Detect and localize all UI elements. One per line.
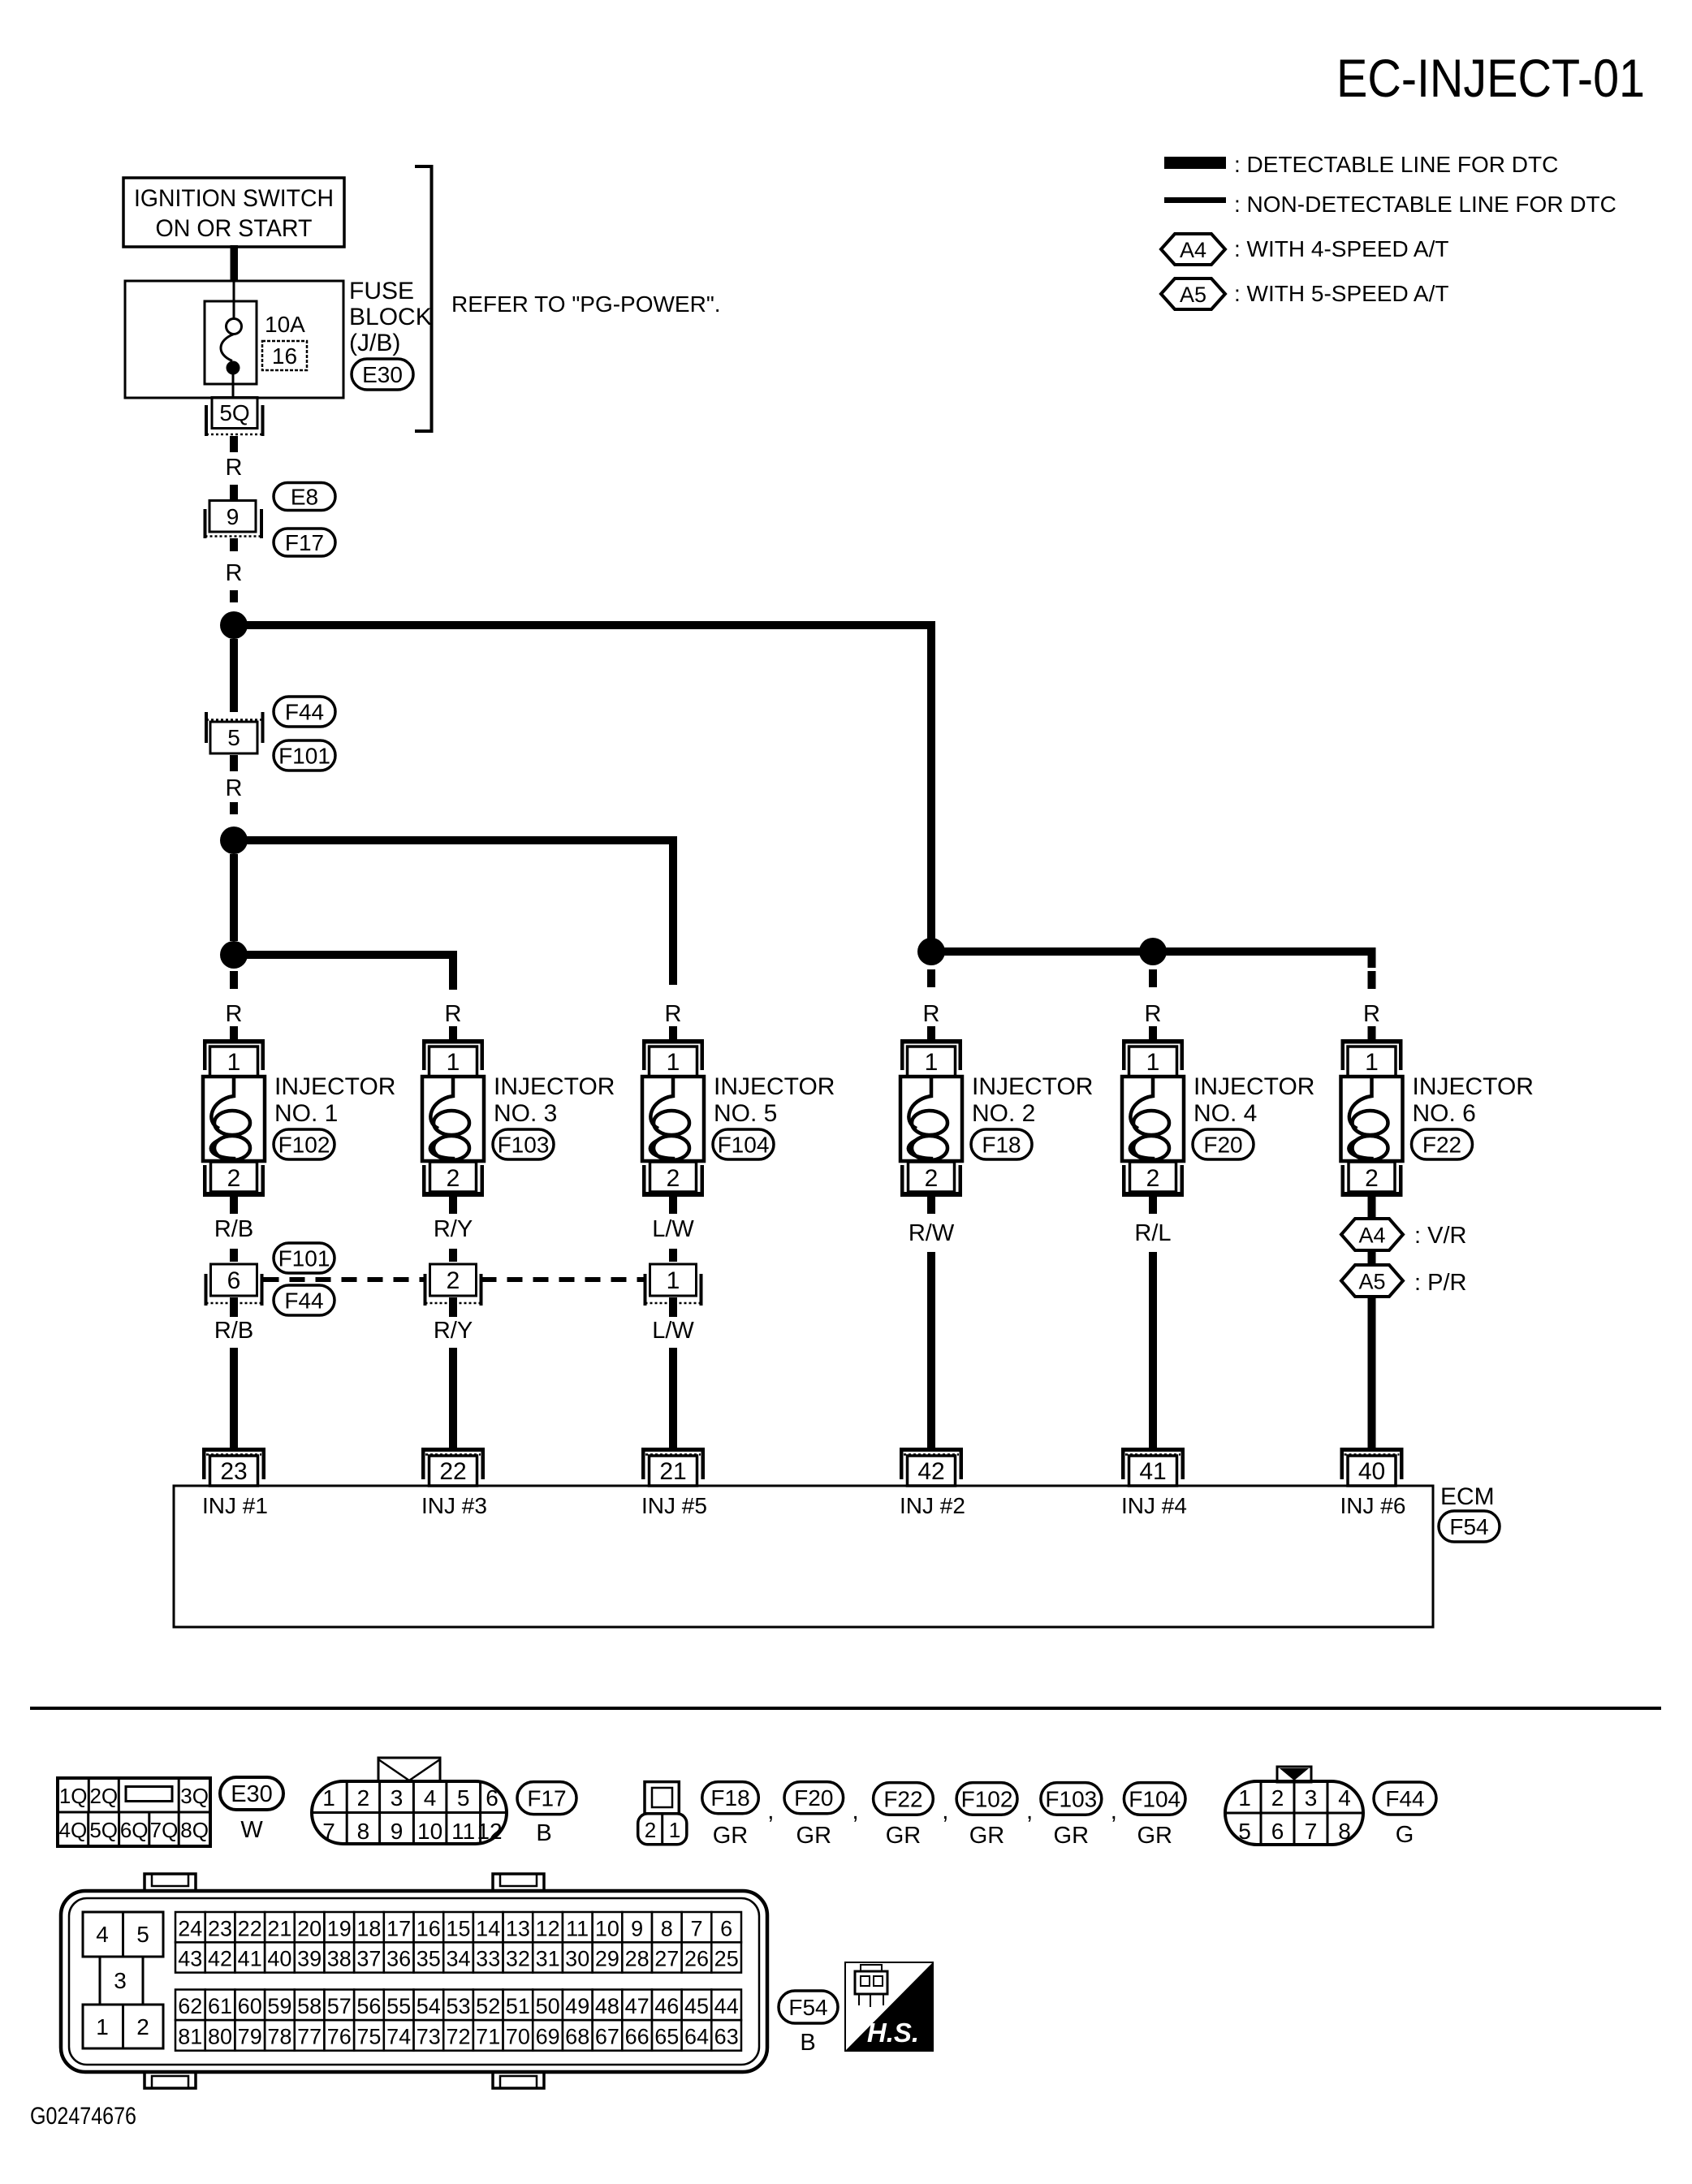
wire vertical column 3 feed: [669, 836, 677, 985]
ECM connector grid lower: [175, 1990, 741, 2051]
svg-text:48: 48: [595, 1994, 619, 2018]
svg-text:INJECTOR: INJECTOR: [972, 1073, 1093, 1100]
separator line: [30, 1707, 1661, 1710]
ECM terminal 23: [202, 1448, 265, 1486]
svg-text:16: 16: [272, 343, 297, 369]
svg-text:1: 1: [667, 1267, 680, 1294]
svg-text:61: 61: [208, 1994, 232, 2018]
svg-text:31: 31: [536, 1947, 560, 1971]
connector E8 oval: [274, 483, 335, 511]
svg-text:NO. 1: NO. 1: [274, 1100, 338, 1127]
svg-text:1: 1: [322, 1785, 335, 1811]
svg-text:2: 2: [1365, 1165, 1379, 1192]
svg-text:ON OR START: ON OR START: [156, 215, 313, 242]
connector F104 oval: [713, 1129, 774, 1159]
wire below 9: [230, 538, 238, 551]
wire vertical column 2 feed: [449, 951, 457, 990]
legend symbol A5: [1161, 278, 1225, 309]
svg-text:74: 74: [386, 2025, 411, 2049]
svg-text:63: 63: [714, 2025, 739, 2049]
svg-text:R/W: R/W: [909, 1220, 955, 1246]
svg-text:55: 55: [386, 1994, 411, 2018]
svg-text:23: 23: [220, 1458, 247, 1485]
svg-text:9: 9: [631, 1916, 643, 1940]
wire long L/W to ECM: [669, 1348, 677, 1448]
svg-text:5: 5: [227, 725, 240, 750]
svg-text:56: 56: [356, 1994, 381, 2018]
wire long R/Y to ECM: [449, 1348, 457, 1448]
svg-text:H.S.: H.S.: [867, 2018, 919, 2048]
injector NO. 5 label: [714, 1073, 835, 1127]
legend symbol A4: [1161, 234, 1225, 265]
wire stub into injector 3: [669, 1026, 677, 1041]
svg-text:A5: A5: [1180, 283, 1206, 307]
wire between A4 and A5: [1368, 1250, 1376, 1265]
svg-text:: P/R: : P/R: [1414, 1270, 1466, 1296]
wire below 2: [449, 1297, 457, 1317]
svg-text:79: 79: [238, 2025, 262, 2049]
svg-text:34: 34: [446, 1947, 470, 1971]
svg-text:54: 54: [417, 1994, 441, 2018]
connector F17 oval label: [517, 1782, 576, 1815]
svg-text:1: 1: [1146, 1049, 1160, 1076]
connector view F44: [1225, 1767, 1363, 1845]
svg-text:6: 6: [1271, 1819, 1284, 1844]
connector F101 oval (mid): [274, 1243, 335, 1273]
svg-text:B: B: [536, 1820, 551, 1846]
svg-text:INJ #3: INJ #3: [421, 1493, 487, 1518]
svg-text:NO. 6: NO. 6: [1413, 1100, 1476, 1127]
svg-text:F102: F102: [961, 1786, 1013, 1811]
svg-text:19: 19: [327, 1916, 352, 1940]
svg-text:R/B: R/B: [214, 1318, 253, 1344]
svg-text:11: 11: [451, 1819, 475, 1844]
svg-text:F22: F22: [1422, 1133, 1461, 1158]
svg-text:66: 66: [625, 2025, 650, 2049]
svg-text:8: 8: [357, 1819, 370, 1844]
svg-text:27: 27: [654, 1947, 679, 1971]
svg-text:3Q: 3Q: [180, 1784, 209, 1808]
svg-text:F54: F54: [788, 1995, 827, 2020]
wire between dot B and dot C: [230, 854, 238, 941]
svg-text:F103: F103: [498, 1133, 550, 1158]
svg-text:32: 32: [506, 1947, 530, 1971]
svg-text:35: 35: [417, 1947, 441, 1971]
svg-text:43: 43: [178, 1947, 202, 1971]
connector F102 oval: [274, 1129, 335, 1159]
svg-text:69: 69: [536, 2025, 560, 2049]
svg-text:72: 72: [446, 2025, 470, 2049]
wire ignition switch to fuse block: [231, 245, 239, 281]
svg-text:E30: E30: [362, 362, 403, 387]
svg-text:GR: GR: [796, 1823, 832, 1849]
svg-text:1: 1: [667, 1049, 680, 1076]
connector F44 oval label: [1374, 1782, 1436, 1815]
connector view F18 family pictogram: [638, 1782, 687, 1845]
connector F44 oval: [274, 697, 335, 727]
svg-text:F104: F104: [1129, 1786, 1181, 1811]
svg-text:EC-INJECT-01: EC-INJECT-01: [1336, 48, 1645, 108]
wire stub into injector 1: [230, 1026, 238, 1041]
svg-text:14: 14: [476, 1916, 500, 1940]
svg-text:R: R: [226, 560, 243, 586]
svg-text:2: 2: [925, 1165, 939, 1192]
svg-text:: WITH 4-SPEED A/T: : WITH 4-SPEED A/T: [1234, 236, 1448, 261]
svg-text:F44: F44: [284, 1288, 323, 1314]
connector F17 oval: [274, 529, 335, 556]
svg-text:A4: A4: [1358, 1224, 1385, 1248]
ECM terminal 42: [900, 1448, 963, 1486]
svg-text:22: 22: [238, 1916, 262, 1940]
connector F102 oval label: [956, 1783, 1017, 1815]
svg-text:,: ,: [767, 1798, 774, 1824]
wire dash below dot D: [927, 969, 935, 987]
fuse number 16 box: [262, 341, 307, 370]
svg-text:75: 75: [356, 2025, 381, 2049]
svg-text:NO. 5: NO. 5: [714, 1100, 777, 1127]
injector NO. 6 label: [1413, 1073, 1534, 1127]
injector NO. 4 label: [1193, 1073, 1314, 1127]
svg-text:GR: GR: [713, 1823, 749, 1849]
svg-text:G02474676: G02474676: [30, 2103, 136, 2130]
svg-text:G: G: [1396, 1822, 1414, 1848]
ECM box: [174, 1486, 1433, 1627]
fuse block label: [349, 278, 432, 356]
connector E30 oval: [352, 359, 413, 390]
connector F18 oval: [971, 1129, 1032, 1159]
svg-text:R: R: [1145, 1001, 1162, 1027]
legend non-detectable line sample: [1164, 197, 1226, 203]
legend detectable line sample: [1164, 157, 1226, 169]
wire dash: [230, 1249, 238, 1262]
svg-text:INJ #5: INJ #5: [641, 1493, 707, 1518]
connector F101 oval: [274, 740, 335, 770]
svg-text:20: 20: [297, 1916, 322, 1940]
svg-text:9: 9: [227, 504, 240, 529]
svg-text:2: 2: [227, 1165, 241, 1192]
wire long R/W to ECM: [927, 1252, 935, 1448]
svg-text:77: 77: [297, 2025, 322, 2049]
svg-text:BLOCK: BLOCK: [349, 304, 432, 330]
connector F44 oval (mid): [274, 1285, 335, 1315]
ECM connector view F54: [61, 1874, 767, 2088]
svg-text:REFER TO "PG-POWER".: REFER TO "PG-POWER".: [451, 291, 721, 317]
svg-text:INJECTOR: INJECTOR: [714, 1073, 835, 1100]
svg-text:81: 81: [178, 2025, 202, 2049]
svg-text:28: 28: [625, 1947, 650, 1971]
svg-text:1Q: 1Q: [59, 1784, 88, 1808]
svg-text:17: 17: [386, 1916, 411, 1940]
svg-text:51: 51: [506, 1994, 530, 2018]
wire below injector 6: [1368, 1197, 1376, 1214]
wire stub into injector 6: [1368, 1026, 1376, 1041]
svg-text:62: 62: [178, 1994, 202, 2018]
bracket refer to PG-POWER: [415, 166, 432, 431]
svg-text:67: 67: [595, 2025, 619, 2049]
svg-text:25: 25: [714, 1947, 739, 1971]
svg-text:78: 78: [267, 2025, 291, 2049]
svg-text:70: 70: [506, 2025, 530, 2049]
svg-text:R/Y: R/Y: [434, 1318, 473, 1344]
svg-text:42: 42: [917, 1458, 944, 1485]
svg-text:26: 26: [684, 1947, 709, 1971]
wire horizontal from dot A to column 4: [234, 621, 934, 629]
wire dash below dot E: [1149, 969, 1157, 987]
svg-text:16: 16: [417, 1916, 441, 1940]
wire below injector 1: [230, 1197, 238, 1214]
svg-text:FUSE: FUSE: [349, 278, 414, 304]
svg-text:F17: F17: [527, 1786, 566, 1811]
injector NO. 3 (F103): [422, 1039, 484, 1197]
svg-text:,: ,: [942, 1798, 948, 1824]
svg-text:7: 7: [690, 1916, 702, 1940]
injector NO. 6 (F22): [1341, 1039, 1403, 1197]
svg-text:L/W: L/W: [652, 1318, 694, 1344]
svg-text:1: 1: [925, 1049, 939, 1076]
wire dash: [230, 802, 238, 814]
svg-text:5Q: 5Q: [219, 400, 249, 425]
svg-text:2: 2: [447, 1165, 460, 1192]
svg-text:INJ #6: INJ #6: [1340, 1493, 1406, 1518]
svg-text:NO. 4: NO. 4: [1193, 1100, 1257, 1127]
wire vertical column 4 feed: [927, 621, 935, 956]
svg-text:50: 50: [536, 1994, 560, 2018]
svg-text:NO. 3: NO. 3: [494, 1100, 557, 1127]
connector 9 (E8/F17): [205, 501, 262, 539]
wire vertical column 6 stub: [1368, 947, 1376, 968]
wire stub to A4: [1368, 1214, 1376, 1220]
svg-text:INJ #4: INJ #4: [1121, 1493, 1187, 1518]
svg-text:65: 65: [654, 2025, 679, 2049]
svg-text:2: 2: [645, 1818, 656, 1842]
svg-text:,: ,: [1026, 1798, 1033, 1824]
svg-text:GR: GR: [886, 1823, 922, 1849]
svg-text:10: 10: [595, 1916, 619, 1940]
svg-text:3: 3: [1305, 1785, 1318, 1811]
wire stub into injector 2: [449, 1026, 457, 1041]
connector 5 (F44/F101): [206, 712, 263, 753]
svg-text:1: 1: [1365, 1049, 1379, 1076]
svg-text:W: W: [240, 1817, 263, 1843]
wire below injector 2: [927, 1197, 935, 1214]
svg-text:12: 12: [477, 1819, 502, 1844]
svg-text:IGNITION SWITCH: IGNITION SWITCH: [134, 185, 334, 212]
svg-text:GR: GR: [1054, 1823, 1090, 1849]
wire stub into injector 4: [927, 1026, 935, 1041]
junction dot B: [220, 827, 248, 854]
svg-text:8Q: 8Q: [180, 1818, 209, 1842]
connector F20 oval: [1193, 1129, 1254, 1159]
junction dot E: [1139, 938, 1167, 965]
svg-text:2: 2: [1146, 1165, 1160, 1192]
svg-text:1: 1: [1238, 1785, 1251, 1811]
connector E30 oval label: [220, 1777, 283, 1810]
wire dash: [449, 1249, 457, 1262]
svg-text:8: 8: [661, 1916, 673, 1940]
svg-text:41: 41: [1139, 1458, 1166, 1485]
wire below 1: [669, 1297, 677, 1317]
svg-text:F103: F103: [1045, 1786, 1097, 1811]
svg-text:4Q: 4Q: [59, 1818, 88, 1842]
svg-text:64: 64: [684, 2025, 709, 2049]
svg-text:6Q: 6Q: [120, 1818, 149, 1842]
svg-text:B: B: [800, 2030, 815, 2056]
svg-text:60: 60: [238, 1994, 262, 2018]
ECM terminal 22: [421, 1448, 485, 1486]
svg-text:(J/B): (J/B): [349, 330, 400, 356]
svg-text:47: 47: [625, 1994, 650, 2018]
svg-text:29: 29: [595, 1947, 619, 1971]
svg-text:23: 23: [208, 1916, 232, 1940]
svg-text:F22: F22: [883, 1786, 922, 1811]
svg-text:21: 21: [659, 1458, 686, 1485]
connector terminal 2 (F101/F44 pass-through): [425, 1264, 481, 1306]
svg-text:76: 76: [327, 2025, 352, 2049]
svg-text:13: 13: [506, 1916, 530, 1940]
svg-text:5: 5: [1238, 1819, 1251, 1844]
svg-text:2: 2: [1271, 1785, 1284, 1811]
wire stub into injector 5: [1149, 1026, 1157, 1041]
connector terminal 6 (F101/F44 pass-through): [206, 1264, 262, 1306]
connector F20 oval label: [784, 1782, 844, 1814]
connector F54 oval: [1439, 1511, 1500, 1542]
svg-text:F54: F54: [1449, 1514, 1488, 1539]
svg-text:73: 73: [417, 2025, 441, 2049]
svg-text:57: 57: [327, 1994, 352, 2018]
svg-text:44: 44: [714, 1994, 739, 2018]
dashed link 2 to 1: [481, 1277, 645, 1282]
fuse 10A symbol: [205, 282, 257, 398]
wire long R/L to ECM: [1149, 1252, 1157, 1448]
svg-text:R: R: [226, 455, 243, 481]
connector F54 oval label (bottom): [779, 1991, 838, 2023]
wire dash: [230, 485, 238, 500]
junction dot C: [220, 941, 248, 969]
injector NO. 2 (F18): [900, 1039, 962, 1197]
connector F103 oval label: [1041, 1783, 1102, 1815]
svg-text:1: 1: [227, 1049, 241, 1076]
svg-text:42: 42: [208, 1947, 232, 1971]
svg-text:R/B: R/B: [214, 1216, 253, 1242]
dashed link 6 to 2: [264, 1277, 425, 1282]
svg-text:53: 53: [446, 1994, 470, 2018]
svg-text:7Q: 7Q: [150, 1818, 179, 1842]
svg-text:6: 6: [486, 1785, 499, 1811]
svg-text:A4: A4: [1180, 238, 1206, 262]
svg-text:2: 2: [136, 2014, 149, 2039]
symbol A5: [1341, 1265, 1403, 1297]
svg-text:11: 11: [566, 1916, 589, 1940]
svg-text:L/W: L/W: [652, 1216, 694, 1242]
injector NO. 3 label: [494, 1073, 615, 1127]
ECM connector grid upper: [175, 1912, 741, 1973]
injector NO. 1 label: [274, 1073, 395, 1127]
svg-text:R/Y: R/Y: [434, 1216, 473, 1242]
svg-text:10A: 10A: [265, 312, 305, 337]
svg-text:R: R: [226, 1001, 243, 1027]
svg-text:8: 8: [1338, 1819, 1351, 1844]
ECM terminal 21: [641, 1448, 705, 1486]
fuse block (J/B) box E30: [125, 281, 343, 398]
svg-text:6: 6: [227, 1267, 241, 1294]
svg-text:3: 3: [114, 1968, 127, 1993]
svg-text:68: 68: [565, 2025, 589, 2049]
connector view E30 grid: [58, 1778, 210, 1846]
svg-text:R: R: [665, 1001, 682, 1027]
svg-text:: DETECTABLE LINE FOR DTC: : DETECTABLE LINE FOR DTC: [1234, 152, 1558, 177]
svg-text:F20: F20: [1203, 1133, 1242, 1158]
svg-text:6: 6: [720, 1916, 732, 1940]
wire dash: [230, 590, 238, 602]
svg-text:18: 18: [356, 1916, 381, 1940]
svg-text:: NON-DETECTABLE LINE FOR DTC: : NON-DETECTABLE LINE FOR DTC: [1234, 192, 1616, 217]
svg-text:F44: F44: [285, 700, 324, 725]
svg-text:9: 9: [391, 1819, 404, 1844]
svg-text:INJ #1: INJ #1: [202, 1493, 268, 1518]
junction dot A: [220, 611, 248, 639]
wire dash: [669, 1249, 677, 1262]
svg-text:INJ #2: INJ #2: [900, 1493, 965, 1518]
svg-text:24: 24: [178, 1916, 202, 1940]
svg-text:46: 46: [654, 1994, 679, 2018]
svg-text:71: 71: [476, 2025, 500, 2049]
svg-text:21: 21: [267, 1916, 291, 1940]
wire horizontal dot E to column 6: [1153, 947, 1375, 956]
svg-text:2: 2: [357, 1785, 370, 1811]
injector NO. 4 (F20): [1122, 1039, 1184, 1197]
wire long R/B to ECM: [230, 1348, 238, 1448]
symbol A4: [1341, 1219, 1403, 1250]
svg-text:ECM: ECM: [1440, 1483, 1495, 1510]
svg-text:37: 37: [356, 1947, 381, 1971]
svg-text:R: R: [923, 1001, 940, 1027]
svg-text:36: 36: [386, 1947, 411, 1971]
svg-text:1: 1: [447, 1049, 460, 1076]
ignition switch box: [123, 178, 344, 247]
connector F22 oval: [1412, 1129, 1473, 1159]
svg-text:: V/R: : V/R: [1414, 1223, 1466, 1249]
wire below 5: [230, 755, 238, 771]
svg-text:41: 41: [238, 1947, 262, 1971]
svg-text:49: 49: [565, 1994, 589, 2018]
svg-text:15: 15: [446, 1916, 470, 1940]
svg-text:GR: GR: [969, 1823, 1005, 1849]
svg-text:F44: F44: [1385, 1786, 1424, 1811]
svg-text:7: 7: [322, 1819, 335, 1844]
connector F22 oval label: [874, 1783, 934, 1815]
svg-text:2: 2: [667, 1165, 680, 1192]
svg-text:F20: F20: [794, 1785, 833, 1811]
svg-text:F17: F17: [285, 530, 324, 555]
svg-text:INJECTOR: INJECTOR: [274, 1073, 395, 1100]
svg-text:30: 30: [565, 1947, 589, 1971]
svg-text:5: 5: [136, 1922, 149, 1947]
svg-text:R: R: [226, 775, 243, 801]
svg-text:80: 80: [208, 2025, 232, 2049]
svg-text:INJECTOR: INJECTOR: [1193, 1073, 1314, 1100]
wire below injector 4: [1149, 1197, 1157, 1214]
wire dash column 6: [1368, 971, 1376, 989]
svg-text:F101: F101: [278, 744, 330, 769]
connector F103 oval: [493, 1129, 554, 1159]
svg-text:F18: F18: [710, 1785, 749, 1811]
svg-text:,: ,: [852, 1798, 858, 1824]
svg-text:INJECTOR: INJECTOR: [1413, 1073, 1534, 1100]
svg-text:4: 4: [424, 1785, 437, 1811]
svg-text:F104: F104: [718, 1133, 770, 1158]
injector NO. 2 label: [972, 1073, 1093, 1127]
wire below dot A: [230, 639, 238, 712]
